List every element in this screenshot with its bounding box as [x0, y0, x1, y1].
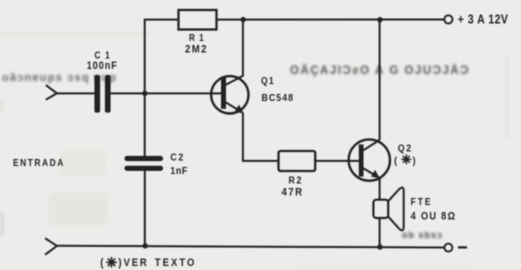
resistor R1 — [179, 10, 217, 56]
wire top rail right segment — [217, 19, 445, 21]
input arrow bottom — [45, 238, 57, 255]
svg-text:C 1: C 1 — [95, 50, 111, 61]
svg-text:C2: C2 — [170, 152, 184, 164]
svg-text:2M2: 2M2 — [185, 44, 208, 56]
svg-text:BC548: BC548 — [262, 92, 295, 104]
svg-text:ENTRADA: ENTRADA — [13, 157, 65, 168]
svg-text:VER: VER — [124, 257, 149, 269]
svg-text:(: ( — [100, 257, 104, 269]
svg-text:TEXTO: TEXTO — [155, 257, 197, 269]
svg-text:47R: 47R — [282, 186, 304, 199]
text (*) VER TEXTO — [100, 257, 196, 269]
terminal + 3 A 12V — [444, 14, 508, 27]
wire Q1 collector vertical — [242, 20, 244, 77]
resistor R2 — [279, 151, 316, 199]
svg-text:4 OU 8Ω: 4 OU 8Ω — [411, 211, 457, 223]
svg-text:(: ( — [394, 155, 398, 167]
svg-text:Q1: Q1 — [261, 75, 275, 87]
svg-text:100nF: 100nF — [87, 60, 118, 72]
node junction dot base — [142, 91, 147, 96]
input arrow top — [46, 85, 57, 100]
speaker FTE — [373, 188, 456, 231]
wire Q2 emitter to speaker — [379, 178, 381, 200]
svg-text:): ) — [413, 155, 416, 167]
wire top rail left segment — [145, 19, 179, 21]
wire bottom rail — [57, 246, 445, 248]
wire vertical feedback line x=145 — [144, 19, 146, 157]
svg-text:R 1: R 1 — [189, 32, 205, 43]
capacitor C1 — [87, 50, 118, 113]
svg-text:ob sbsɔ: ob sbsɔ — [402, 230, 443, 240]
wire R2 to Q2 base — [315, 160, 359, 162]
transistor Q2 — [349, 139, 416, 180]
transistor Q1 BC548 — [211, 75, 294, 114]
node junction dot speaker at bottom rail — [377, 244, 382, 249]
wire Q2 collector vertical — [379, 20, 381, 140]
node junction dot R1-collector — [241, 17, 246, 22]
wire input to C1 — [57, 92, 95, 94]
wire Q1 emitter down and right to R2 — [243, 113, 279, 161]
svg-text:1nF: 1nF — [170, 165, 187, 177]
node junction dot Q2 collector at rail — [377, 17, 382, 22]
wire C2 bottom vertical — [144, 171, 146, 246]
svg-text:+ 3 A 12V: + 3 A 12V — [458, 14, 509, 27]
node junction dot C2 at bottom rail — [143, 243, 148, 248]
capacitor C2 — [125, 152, 188, 177]
svg-text:FTE: FTE — [411, 196, 433, 207]
wire speaker to bottom rail — [379, 218, 381, 247]
svg-text:Q2: Q2 — [398, 143, 413, 155]
wire C1 to Q1 base — [111, 92, 222, 94]
terminal minus — [444, 244, 467, 252]
svg-text:): ) — [118, 257, 122, 269]
